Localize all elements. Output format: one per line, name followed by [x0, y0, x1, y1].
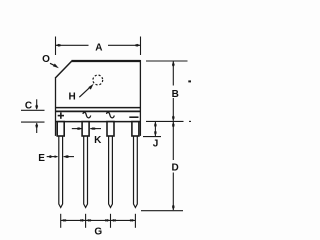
ac marking 2 [107, 112, 115, 118]
dim D extension bottom [141, 210, 183, 212]
svg-text:E: E [38, 153, 45, 164]
svg-text:J: J [153, 139, 159, 150]
dim B extension top [146, 60, 188, 62]
edge mark right [188, 80, 191, 82]
body top edge [72, 60, 141, 62]
mounting hole (dashed) [93, 75, 103, 85]
lead 3 wide section [107, 122, 114, 136]
dim J extension top [146, 120, 184, 122]
dim A arrow left [56, 44, 59, 47]
dim G tick pin4 [134, 214, 136, 228]
dim A arrow right [137, 44, 140, 47]
slot top line [56, 110, 141, 112]
dim D arrow down [172, 207, 175, 210]
dim D arrow up [172, 122, 175, 125]
dim E left arrow [47, 156, 58, 158]
dim J arrow up [154, 122, 157, 125]
dim G line [61, 219, 136, 221]
body bottom edge [56, 121, 141, 123]
dim E right arrow [64, 156, 74, 158]
svg-text:B: B [172, 89, 179, 100]
lead 2 pin [84, 136, 88, 208]
svg-text:A: A [95, 42, 102, 53]
dim J extension bottom [143, 136, 161, 138]
svg-text:D: D [171, 162, 178, 173]
ac marking 1 [83, 112, 91, 118]
plus marking [58, 112, 64, 118]
dim G tick pin3 [110, 214, 112, 228]
minus marking [129, 116, 138, 118]
body right edge [139, 60, 141, 136]
dim K left arrow [72, 128, 82, 130]
leader H arrow [79, 86, 91, 97]
dim K right arrow [90, 128, 101, 130]
dim D line [172, 122, 174, 160]
lead 2 wide section [82, 122, 89, 136]
lead 3 pin [109, 136, 113, 208]
dim A extension line left [55, 37, 57, 56]
lead 4 pin [134, 136, 138, 208]
svg-text:H: H [68, 91, 75, 102]
dim B arrow up [172, 61, 175, 64]
dim B arrow down [172, 118, 175, 121]
svg-text:K: K [94, 135, 102, 146]
lead 1 wide section [57, 122, 64, 136]
body lower line [56, 107, 141, 109]
body left edge [55, 77, 57, 136]
lead 1 pin [59, 136, 63, 208]
dim A line [56, 44, 89, 46]
dim J arrow down [154, 133, 157, 136]
body chamfer corner [56, 61, 72, 78]
dim C extension bottom [21, 121, 45, 123]
leader O arrow [50, 63, 57, 66]
dim C extension top [21, 109, 45, 111]
dim G tick pin1 [60, 214, 62, 228]
dim G arrowheads [61, 219, 64, 222]
svg-text:G: G [94, 227, 102, 238]
dim G tick pin2 [85, 214, 87, 228]
dim B line [172, 61, 174, 85]
dim C down arrow [36, 99, 38, 109]
dim A extension line right [140, 37, 142, 56]
dim C up arrow [36, 123, 38, 133]
lead 4 wide section [132, 122, 139, 136]
svg-text:O: O [42, 54, 50, 65]
dim J line [154, 122, 156, 136]
